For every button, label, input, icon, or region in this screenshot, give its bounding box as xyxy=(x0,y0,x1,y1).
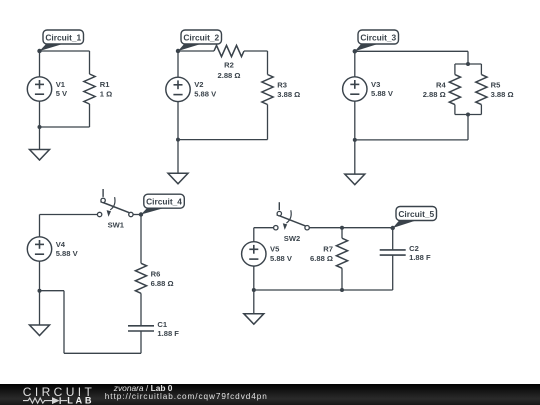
svg-text:V5: V5 xyxy=(270,245,280,254)
svg-text:1.88 F: 1.88 F xyxy=(157,329,179,338)
svg-text:http://circuitlab.com/cqw79fcd: http://circuitlab.com/cqw79fcdvd4pn xyxy=(105,392,268,401)
svg-text:V1: V1 xyxy=(56,80,66,89)
svg-text:6.88 Ω: 6.88 Ω xyxy=(151,279,174,288)
svg-text:5.88 V: 5.88 V xyxy=(56,249,79,258)
svg-text:C1: C1 xyxy=(157,320,167,329)
svg-text:5.88 V: 5.88 V xyxy=(194,90,217,99)
svg-text:SW2: SW2 xyxy=(284,234,300,243)
svg-text:R1: R1 xyxy=(100,80,110,89)
svg-text:R3: R3 xyxy=(277,80,287,89)
svg-text:3.88 Ω: 3.88 Ω xyxy=(491,90,514,99)
svg-text:R4: R4 xyxy=(436,80,446,89)
svg-text:SW1: SW1 xyxy=(108,221,125,230)
svg-text:Circuit_2: Circuit_2 xyxy=(183,32,219,42)
svg-text:2.88 Ω: 2.88 Ω xyxy=(218,71,241,80)
svg-text:V2: V2 xyxy=(194,80,203,89)
svg-text:R2: R2 xyxy=(224,61,234,70)
svg-text:LAB: LAB xyxy=(67,396,94,405)
svg-text:R6: R6 xyxy=(151,269,161,278)
svg-text:1 Ω: 1 Ω xyxy=(100,89,112,98)
svg-text:V4: V4 xyxy=(56,240,66,249)
svg-text:R5: R5 xyxy=(491,80,501,89)
svg-text:C2: C2 xyxy=(409,244,419,253)
svg-text:1.88 F: 1.88 F xyxy=(409,253,431,262)
svg-text:Circuit_4: Circuit_4 xyxy=(146,197,182,207)
svg-text:6.88 Ω: 6.88 Ω xyxy=(310,254,333,263)
svg-text:R7: R7 xyxy=(323,244,333,253)
svg-text:Circuit_3: Circuit_3 xyxy=(360,32,396,42)
svg-text:V3: V3 xyxy=(371,80,380,89)
svg-text:2.88 Ω: 2.88 Ω xyxy=(423,90,446,99)
svg-text:Circuit_1: Circuit_1 xyxy=(45,32,81,42)
svg-text:5.88 V: 5.88 V xyxy=(270,254,293,263)
svg-text:5 V: 5 V xyxy=(56,89,68,98)
svg-text:Circuit_5: Circuit_5 xyxy=(398,209,434,219)
svg-text:5.88 V: 5.88 V xyxy=(371,89,394,98)
svg-text:3.88 Ω: 3.88 Ω xyxy=(277,90,300,99)
